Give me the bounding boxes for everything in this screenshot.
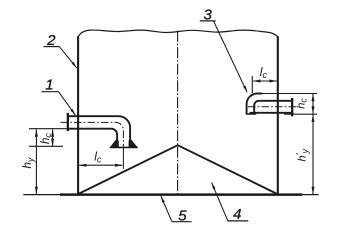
right pipe bottom wall <box>250 112 294 114</box>
ground line <box>23 194 318 196</box>
wavy break line (bunker top) <box>78 30 278 37</box>
dimension h_y' right: bottom arrow <box>312 187 315 195</box>
dimension l_c right: right arrow <box>269 80 277 83</box>
dimension l_c right: line <box>253 80 277 82</box>
dimension l_c left: line <box>79 164 122 166</box>
svg-text:1: 1 <box>45 76 53 93</box>
dimension h_y left: top arrow <box>35 129 38 137</box>
dimension l_c left: right arrow <box>115 164 123 167</box>
label 3 underline <box>200 20 216 22</box>
label 4 leader <box>212 183 228 221</box>
dimension h_y left: label <box>22 157 35 168</box>
label 5 leader <box>161 196 172 222</box>
label 1 leader <box>59 92 76 115</box>
dimension h_y' right: label <box>295 148 310 161</box>
dimension h_c right: label <box>295 98 308 109</box>
extension line at right elbow outlet level <box>284 113 317 115</box>
dimension h_c left: line <box>52 130 54 146</box>
dimension h_y left: bottom arrow <box>35 187 38 195</box>
label 4 arrowhead <box>212 182 216 189</box>
label 1 underline <box>42 91 59 93</box>
left nozzle flare left side <box>110 139 119 147</box>
label 2 arrowhead <box>72 62 77 68</box>
left pipe axis (dash-dot) <box>61 122 124 146</box>
label 5 underline <box>172 221 192 223</box>
dimension h_y left: line <box>35 130 37 194</box>
dimension h_y' right: top arrow <box>312 114 315 122</box>
right pipe flange <box>291 98 293 116</box>
left pipe bottom wall with elbow inner curve <box>69 129 118 140</box>
bunker right wall <box>277 36 279 195</box>
extension line at right elbow top level (h_c) <box>262 93 317 95</box>
extension line below left nozzle (pipe axis) <box>122 148 124 169</box>
label 3 leader <box>214 21 248 92</box>
label 2 underline <box>44 46 60 48</box>
dimension h_c left: top arrow <box>51 129 54 137</box>
label 3 arrowhead <box>243 86 247 93</box>
center axis line <box>177 31 179 197</box>
left pipe flange <box>67 113 69 131</box>
extension line at left nozzle outlet level <box>29 145 63 147</box>
dimension l_c right: left arrow <box>253 80 261 83</box>
label 4 underline <box>227 220 248 222</box>
left pipe 1: top wall with elbow outer curve <box>69 116 131 140</box>
left nozzle outlet bottom line <box>110 146 138 148</box>
material pile right slope 4 <box>178 145 277 194</box>
label 2 leader <box>59 47 76 68</box>
dimension h_c right: line <box>312 94 314 114</box>
extension line at left pipe bottom level <box>29 128 69 130</box>
label 1 arrowhead <box>70 109 75 115</box>
right pipe axis (dash-dot) <box>248 106 298 108</box>
dimension h_c right: bottom arrow <box>312 106 315 114</box>
left nozzle flare right side <box>129 139 138 147</box>
label 5 arrowhead <box>161 196 165 203</box>
bunker left wall 2 <box>77 36 79 195</box>
dimension h_y' right: line <box>312 115 314 194</box>
right pipe 3: elbow sleeve outer curve <box>247 93 262 114</box>
right elbow outlet bottom line <box>246 113 256 115</box>
right pipe top wall with inner curve <box>254 101 293 114</box>
dimension l_c right: extension line <box>251 76 253 93</box>
dimension h_c right: top arrow <box>312 94 315 102</box>
dimension h_c left: bottom arrow <box>51 139 54 147</box>
material pile left slope <box>79 145 178 194</box>
dimension l_c left: left arrow <box>79 164 87 167</box>
dimension h_c left: label <box>40 133 53 144</box>
